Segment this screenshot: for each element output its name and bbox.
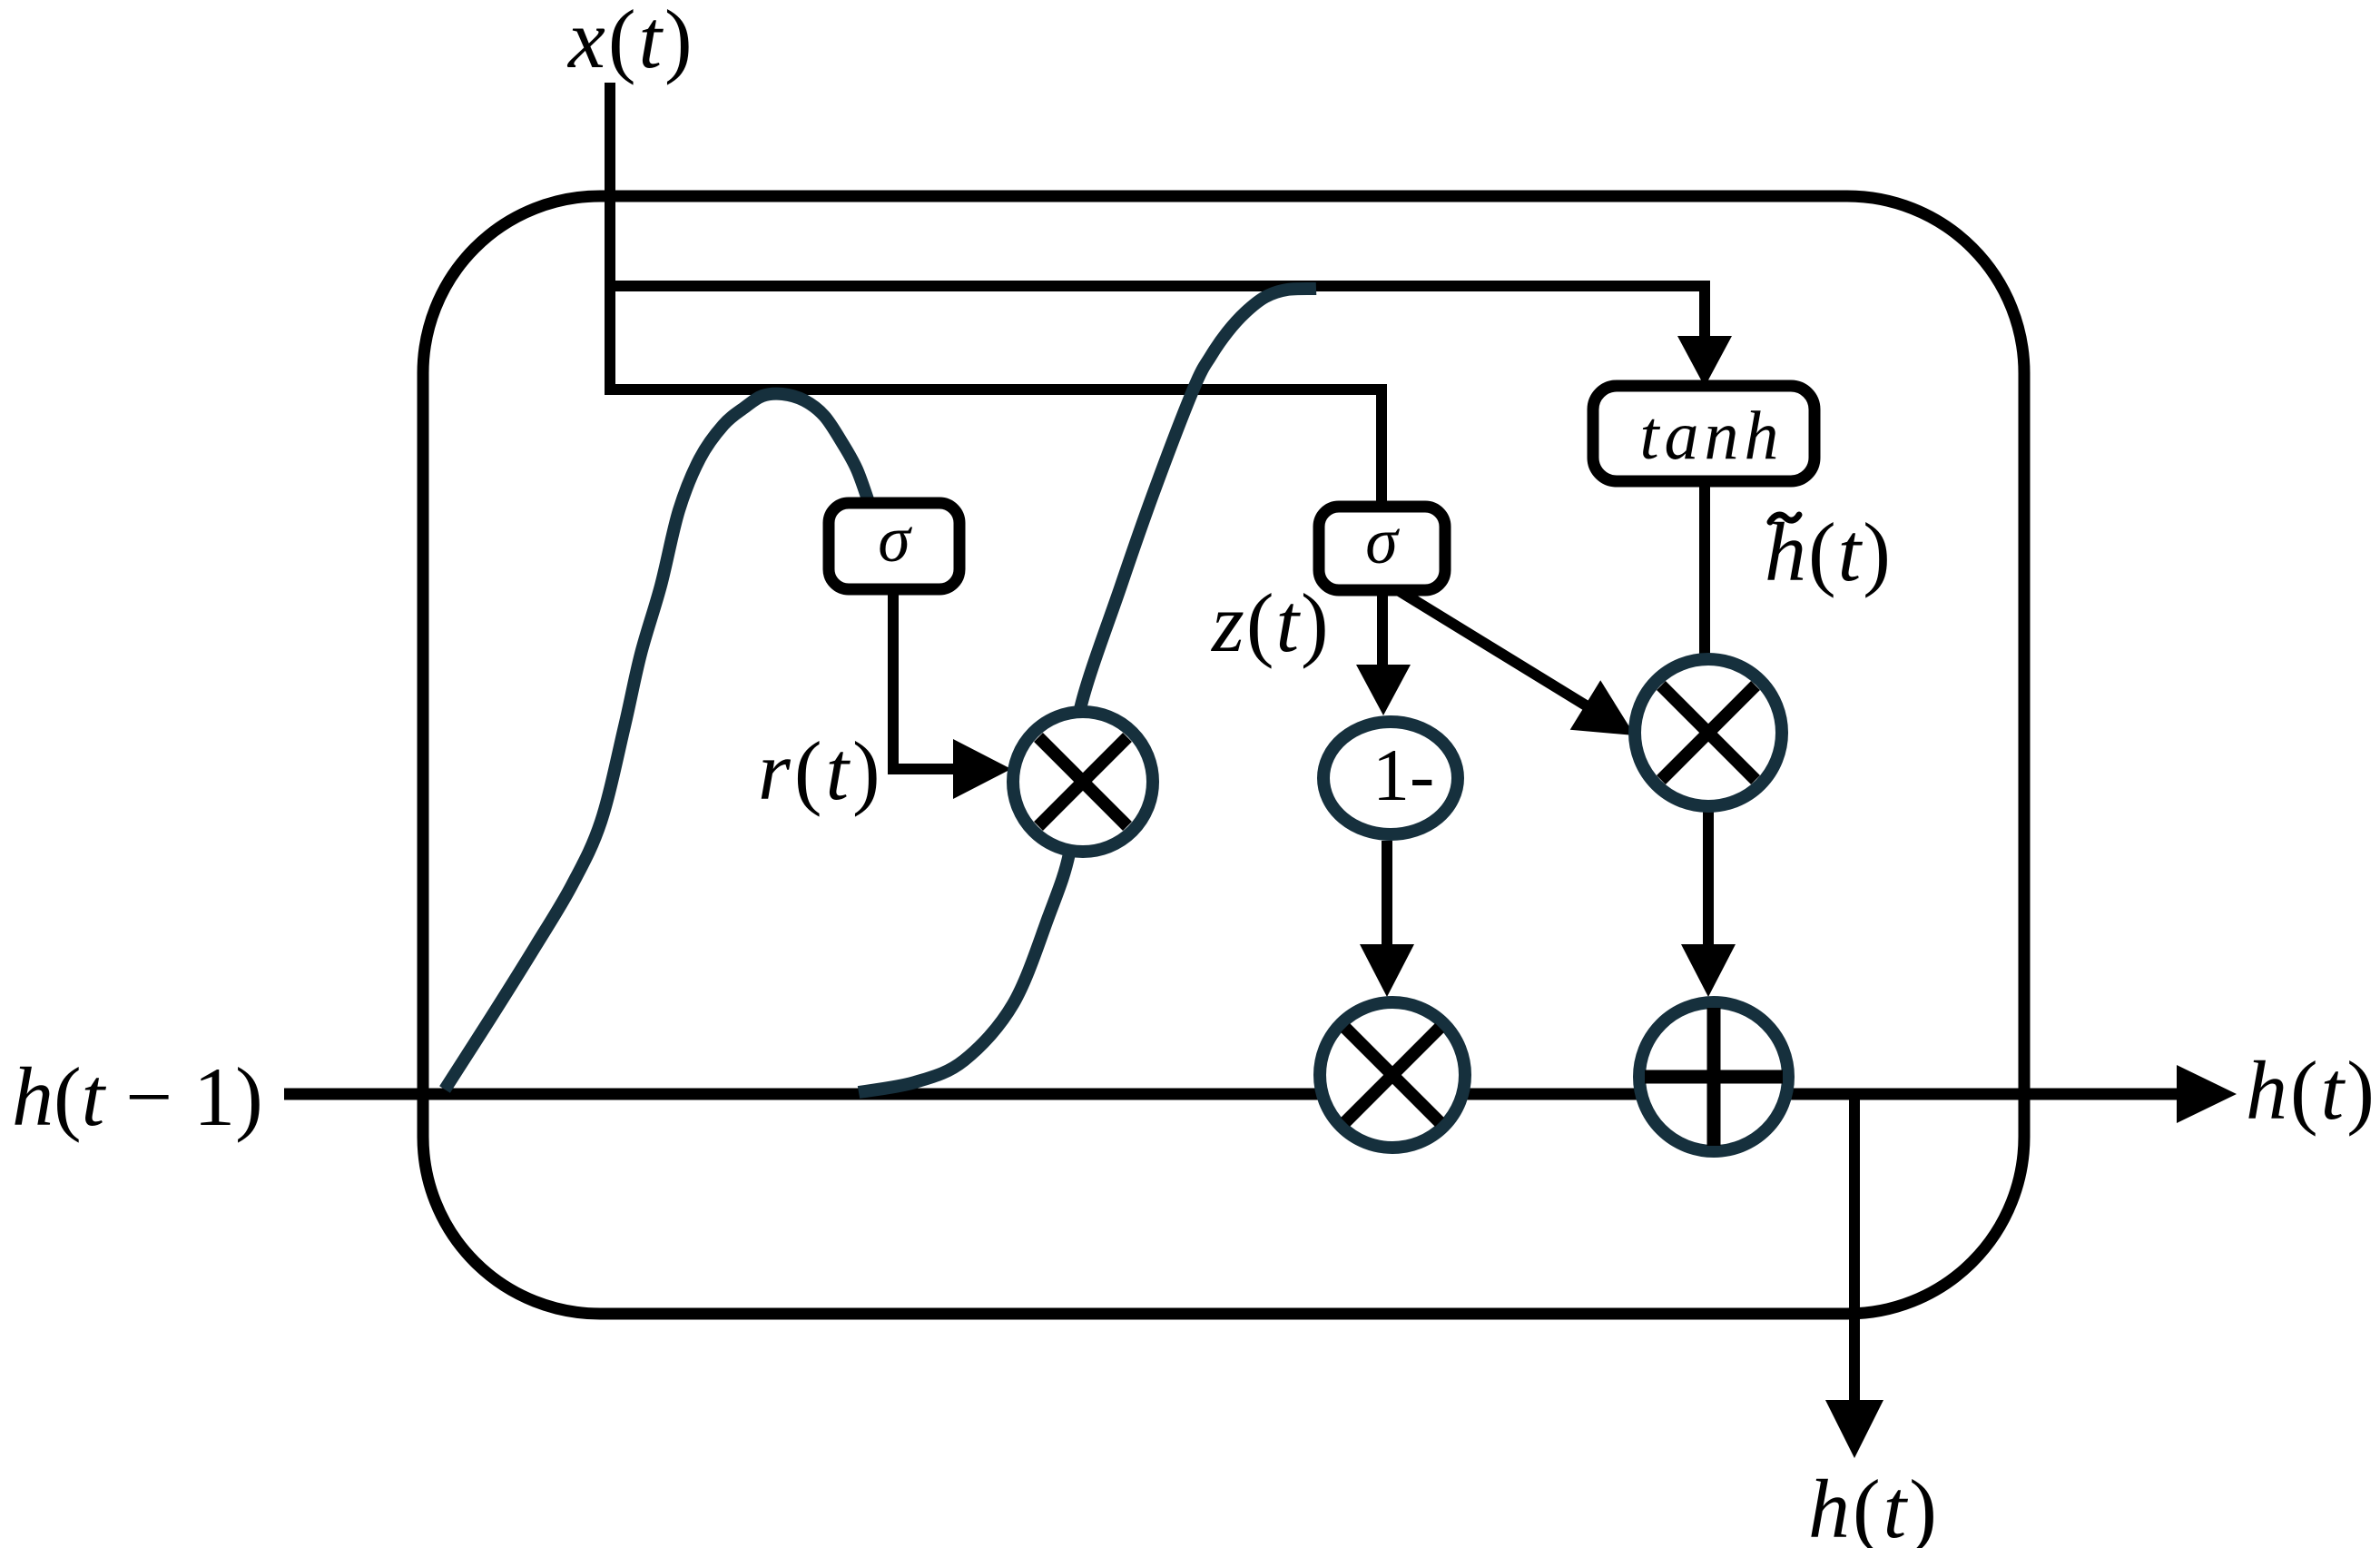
svg-text:tanh: tanh xyxy=(1639,398,1784,474)
svg-text:z(t): z(t) xyxy=(1210,577,1331,669)
svg-text:σ: σ xyxy=(1365,505,1400,577)
svg-text:1-: 1- xyxy=(1372,734,1434,816)
svg-text:h(t − 1): h(t − 1) xyxy=(12,1050,263,1143)
svg-text:σ: σ xyxy=(878,503,912,576)
svg-text:r(t): r(t) xyxy=(758,725,884,817)
svg-text:h(t): h(t) xyxy=(1808,1463,1940,1548)
svg-text:x(t): x(t) xyxy=(566,0,695,85)
svg-text:h(t): h(t) xyxy=(2246,1044,2377,1137)
